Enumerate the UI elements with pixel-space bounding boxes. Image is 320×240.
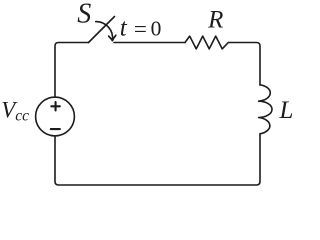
svg-text:=: =: [134, 17, 147, 42]
plus sign of source: [51, 102, 60, 111]
svg-text:L: L: [279, 97, 294, 124]
inductor L coil (three bumps): [259, 85, 272, 134]
minus sign of source: [51, 128, 60, 130]
switch S blade: [89, 17, 115, 43]
svg-text:Vcc: Vcc: [1, 97, 29, 124]
wire top-right (resistor to corner, down to inductor): [228, 43, 260, 86]
svg-text:S: S: [77, 0, 91, 30]
resistor R zigzag: [185, 36, 228, 49]
wire right column bottom: [55, 134, 260, 185]
voltage source Vcc circle: [36, 97, 75, 136]
svg-text:t: t: [120, 15, 128, 42]
wire top middle (switch to resistor): [114, 42, 185, 44]
svg-text:R: R: [207, 7, 223, 34]
wire top-left stub: [55, 43, 89, 98]
svg-text:0: 0: [151, 16, 162, 40]
switch closing arrow (t=0 actuation arc): [96, 22, 113, 41]
arrowhead: [109, 35, 116, 40]
